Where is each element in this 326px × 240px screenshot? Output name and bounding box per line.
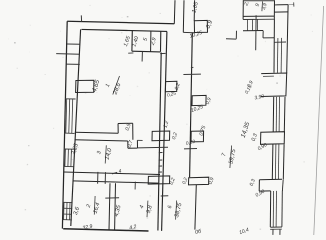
cabin divider (150, 31, 152, 52)
divider room9 (255, 15, 257, 50)
wall left rung b (67, 63, 80, 65)
wall left outer (62, 21, 67, 228)
room9 floor line (243, 15, 274, 17)
room9 fraction (261, 2, 264, 12)
window right B (275, 97, 277, 132)
speck a (14, 42, 15, 43)
tambour wall right (182, 0, 185, 32)
wall left rung a (67, 43, 80, 45)
pier central lower (148, 176, 170, 184)
pilaster left wall (76, 80, 94, 92)
closet notch down (127, 141, 129, 148)
right wall rung top (274, 41, 286, 43)
jamb room4 (134, 182, 136, 190)
right wall bottom rungs (270, 226, 282, 228)
door jamb a (97, 172, 99, 184)
window right D (269, 191, 271, 227)
right wall inner face mid (272, 97, 275, 132)
room9 right wall (273, 0, 275, 18)
step room8 right vert (262, 31, 264, 38)
window right A (276, 38, 279, 73)
window left upper (65, 99, 68, 133)
scan right border (314, 6, 324, 235)
wall room2-4 a (109, 183, 110, 230)
wall top inner (82, 29, 168, 31)
wall top corner tick (80, 15, 82, 21)
wall bottom (63, 229, 148, 231)
corridor right wall (190, 33, 193, 178)
dim tick top right (293, 2, 295, 6)
central wall face a (162, 32, 167, 231)
wall under pier (183, 31, 194, 33)
tick room7 wall (184, 148, 197, 150)
window left mid (64, 149, 67, 166)
door jamb b (104, 172, 106, 184)
wall top outer (67, 21, 174, 23)
room7 fraction (230, 146, 232, 169)
pier room6 bottom right (189, 177, 209, 185)
tick under box top (263, 75, 274, 77)
cabin step to corridor wall (160, 52, 165, 54)
tick corridor wall (183, 73, 201, 75)
tick corridor wall small (191, 66, 194, 69)
right wall outer face mid (283, 97, 286, 132)
right wall outer face upper (287, 5, 288, 74)
scan noise specks (108, 37, 109, 40)
speck b (127, 16, 129, 17)
partition upper line (243, 18, 274, 20)
tick central wall low (161, 195, 169, 197)
wall room8 to room9wall (263, 37, 274, 39)
pier room7 left (191, 131, 204, 142)
wall room2-4 b (114, 183, 117, 230)
step room8 left vert (235, 31, 237, 39)
wall room3-2 lower (73, 181, 159, 183)
speck c (28, 145, 29, 146)
right wall bottom stubs (272, 229, 274, 235)
room4 fraction (146, 201, 149, 218)
wall room1-3 upper (75, 132, 118, 133)
speck in box (277, 83, 278, 84)
partition hatches (246, 19, 248, 30)
step right wall top (259, 178, 282, 181)
cabin block right (160, 31, 162, 52)
wall left tick dim (56, 53, 80, 56)
ladder central wall (159, 152, 163, 154)
avant-corps box right (261, 73, 287, 97)
cabin left tick (128, 52, 133, 54)
room6 wall lower (195, 185, 196, 230)
wall left inner (71, 29, 81, 226)
right wall double top (274, 4, 288, 6)
cabin block bottom (132, 50, 161, 53)
dim line top right (277, 3, 294, 5)
right wall outer face low (282, 144, 285, 179)
cabin door jamb (141, 52, 143, 62)
tick room2-4 (105, 197, 119, 199)
arrow line (112, 172, 117, 174)
step right wall vert (258, 180, 260, 191)
wall room8 left (193, 0, 195, 20)
pier top corridor (194, 20, 207, 32)
wall room8 bottom (226, 38, 236, 40)
right wall inner face low (271, 144, 274, 179)
pier central mid (152, 131, 170, 141)
room6 fraction (176, 201, 177, 220)
pier right wall (261, 132, 285, 145)
room1 fraction (113, 76, 120, 95)
cabin block left (131, 30, 133, 51)
room9 left wall (242, 0, 244, 19)
room2 fraction (93, 196, 96, 215)
partition lower line (243, 30, 263, 32)
step right wall bottom (259, 190, 271, 192)
wall room3-2 upper (64, 172, 160, 175)
room3 fraction (105, 145, 106, 163)
pier corridor mid (192, 95, 206, 105)
right wall inner face upper (273, 18, 275, 72)
window right C (274, 144, 277, 179)
room9 top line (243, 0, 274, 2)
pilaster central upper (165, 81, 177, 91)
closet notch up (117, 124, 119, 134)
wall room1-3 lower (75, 140, 128, 141)
tick central wall (138, 146, 168, 149)
window left room2 (63, 202, 65, 219)
central wall face b (158, 53, 161, 231)
tambour wall left (173, 0, 176, 24)
